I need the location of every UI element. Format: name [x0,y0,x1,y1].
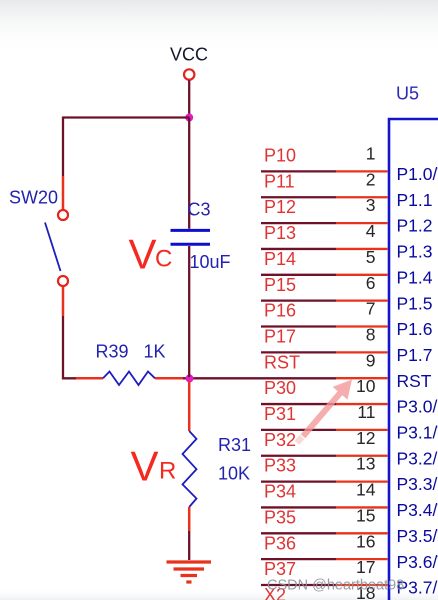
wire pin 6 [261,274,336,276]
svg-text:13: 13 [356,454,375,474]
svg-text:P36: P36 [264,533,296,553]
svg-text:P1.4: P1.4 [397,267,433,287]
svg-text:R: R [159,458,176,485]
resistor R39 left pin [76,377,103,380]
switch SW20 bottom terminal [58,276,68,286]
resistor R31 bottom pin [188,507,191,531]
svg-text:P3.1/TXD: P3.1/TXD [397,423,438,443]
svg-text:R31: R31 [218,435,251,455]
IC port names [397,164,438,598]
ground symbol [167,562,212,582]
node A junction dot [185,114,193,122]
svg-text:P1.5: P1.5 [397,293,433,313]
svg-text:1: 1 [366,144,376,164]
svg-text:6: 6 [366,273,376,293]
svg-text:12: 12 [356,428,375,448]
svg-text:4: 4 [366,221,376,241]
svg-text:CSDN @heartbeat98: CSDN @heartbeat98 [267,578,404,594]
svg-text:7: 7 [366,299,376,319]
switch SW20 top terminal [58,210,68,220]
svg-text:17: 17 [356,557,375,577]
svg-text:1K: 1K [144,342,166,362]
svg-text:14: 14 [356,480,376,500]
wire pin 2 [261,170,336,172]
svg-text:V: V [129,231,157,278]
capacitor C3 top plate [171,229,211,232]
svg-text:C3: C3 [188,200,211,220]
wire pin 14 [261,480,336,482]
resistor R39 right pin [155,377,183,380]
resistor R31 body [183,431,197,507]
svg-text:3: 3 [366,195,376,215]
wire junction A to switch branch [63,116,189,118]
pin stub switch bottom [62,287,65,317]
svg-text:9: 9 [366,350,376,370]
svg-text:8: 8 [366,325,376,345]
wire down to switch [62,117,64,177]
wire pin 7 [261,299,336,301]
wire pin 8 [261,325,336,327]
resistor R39 body [103,372,155,386]
svg-text:P15: P15 [264,275,296,295]
svg-text:P1.6: P1.6 [397,319,433,339]
wire pin 3 [261,196,336,198]
svg-text:P1.7: P1.7 [397,345,433,365]
op-amp? no : IC U5 body border [389,119,438,600]
svg-text:C: C [155,246,172,273]
svg-text:11: 11 [357,402,375,422]
wire pin 10 RST net [336,377,388,379]
svg-text:5: 5 [366,247,376,267]
svg-text:P31: P31 [264,404,296,424]
node B junction dot [186,374,194,382]
wire pin 11 [261,403,336,405]
svg-text:P17: P17 [264,327,296,347]
svg-text:P34: P34 [264,482,296,502]
svg-text:P33: P33 [264,456,296,476]
svg-text:P3.5/T1: P3.5/T1 [397,526,438,546]
resistor R31 top pin [188,381,191,431]
svg-text:P3.6/WR: P3.6/WR [397,552,438,572]
wire R39 to junction B and on to RST pin row [183,377,336,379]
svg-text:P16: P16 [264,301,296,321]
svg-text:2: 2 [366,169,376,189]
wire pin 18 [261,584,336,586]
wire pin 16 [261,532,336,534]
svg-text:P12: P12 [264,197,296,217]
svg-text:P1.1: P1.1 [397,190,433,210]
pin stub switch top [62,176,65,210]
wire switch to R39 corner [63,316,76,378]
capacitor C3 bottom plate [171,243,211,246]
wire pin 9 [261,351,336,353]
svg-text:RST: RST [397,371,432,391]
wire VCC terminal to junction A [188,80,190,117]
svg-text:P1.0/T2: P1.0/T2 [397,164,438,184]
power terminal VCC [184,69,194,79]
wire pin 12 [261,429,336,431]
svg-text:10K: 10K [218,464,250,484]
svg-text:V: V [131,443,159,490]
net labels [264,146,300,600]
svg-text:VCC: VCC [170,45,208,65]
svg-text:P13: P13 [264,223,296,243]
svg-text:R39: R39 [96,342,129,362]
svg-text:P10: P10 [264,146,296,166]
svg-text:P3.4/T0: P3.4/T0 [397,500,438,520]
switch SW20 arm [45,223,61,272]
annotation arrow pointing to RST pin [301,380,352,439]
svg-text:P11: P11 [264,171,295,191]
svg-text:RST: RST [264,352,300,372]
svg-text:P1.2: P1.2 [397,216,433,236]
svg-text:P30: P30 [264,378,296,398]
wire pin 4 [261,222,336,224]
svg-text:P3.3/INT1: P3.3/INT1 [397,474,438,494]
svg-text:P35: P35 [264,507,296,527]
svg-text:SW20: SW20 [9,188,58,208]
svg-text:U5: U5 [396,84,419,104]
pin wires rows 2-18 [261,171,388,585]
wire capacitor C3 to junction B [188,246,190,377]
svg-text:P32: P32 [264,430,296,450]
wire pin 17 [261,558,336,560]
svg-text:P14: P14 [264,249,296,269]
svg-text:10uF: 10uF [190,252,231,272]
svg-text:16: 16 [356,531,375,551]
wire pin 15 [261,506,336,508]
wire R31 to ground [188,531,190,560]
pin numbers [356,144,376,600]
svg-text:10: 10 [356,376,376,396]
wire junction A down to capacitor C3 [188,118,190,229]
svg-text:P37: P37 [264,559,296,579]
wire pin 5 [261,248,336,250]
svg-text:P3.2/INT0: P3.2/INT0 [397,448,438,468]
svg-text:P1.3: P1.3 [397,242,433,262]
svg-text:15: 15 [356,505,375,525]
svg-text:P3.0/RXD: P3.0/RXD [397,397,438,417]
wire pin 13 [261,455,336,457]
